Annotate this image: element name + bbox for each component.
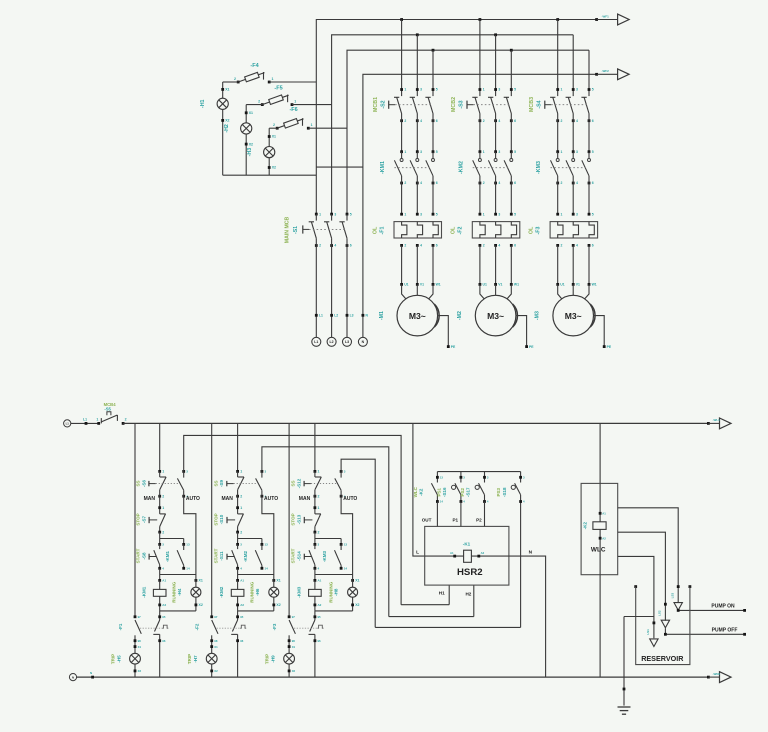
svg-text:1: 1: [404, 150, 406, 154]
svg-text:P2: P2: [476, 518, 482, 523]
svg-text:U1: U1: [483, 283, 487, 287]
svg-text:X2: X2: [138, 669, 142, 673]
ground: [618, 707, 631, 714]
svg-text:X1: X1: [272, 135, 276, 139]
svg-text:4: 4: [498, 244, 500, 248]
svg-text:-F1: -F1: [379, 226, 385, 234]
svg-text:95: 95: [240, 615, 244, 619]
svg-text:-K2: -K2: [419, 488, 424, 496]
svg-text:L3: L3: [350, 314, 354, 318]
svg-text:PE: PE: [607, 345, 612, 349]
svg-text:-F2: -F2: [195, 623, 200, 630]
svg-text:6: 6: [592, 181, 594, 185]
svg-text:-F5: -F5: [274, 86, 282, 92]
svg-text:-WN1: -WN1: [713, 672, 721, 676]
wire WLC to shallow probe: [618, 508, 679, 603]
svg-text:OL: OL: [451, 226, 457, 234]
svg-text:96: 96: [162, 639, 166, 643]
svg-text:OL: OL: [529, 226, 535, 234]
svg-text:-S12: -S12: [297, 478, 302, 488]
terminal L3: [343, 314, 354, 347]
auto feed staircase wire column 1: [184, 435, 401, 604]
wire STOP to start rung column 2: [238, 532, 262, 544]
svg-text:2: 2: [483, 244, 485, 248]
svg-text:95: 95: [162, 615, 166, 619]
svg-text:TRIP: TRIP: [187, 654, 192, 664]
svg-text:MAN: MAN: [222, 496, 234, 502]
svg-text:AUTO: AUTO: [343, 496, 357, 502]
svg-text:1: 1: [319, 212, 321, 216]
svg-text:MAN: MAN: [144, 496, 156, 502]
svg-text:13: 13: [344, 543, 348, 547]
svg-text:1: 1: [561, 88, 563, 92]
svg-text:LS2: LS2: [658, 610, 662, 616]
running lamp -H8: [328, 575, 359, 611]
svg-text:MAN: MAN: [299, 496, 311, 502]
terminal L1: [312, 314, 323, 347]
svg-text:1: 1: [240, 470, 242, 474]
svg-text:M3~: M3~: [487, 311, 504, 321]
svg-text:PE: PE: [529, 345, 534, 349]
svg-text:-F3: -F3: [272, 623, 277, 630]
svg-text:1: 1: [318, 506, 320, 510]
svg-text:-S10: -S10: [219, 514, 224, 524]
svg-text:WLC: WLC: [413, 486, 418, 497]
wire motor 3 PE: [535, 283, 612, 349]
relay box WLC: [581, 483, 618, 574]
svg-text:6: 6: [350, 244, 352, 248]
svg-text:H1: H1: [439, 591, 445, 596]
stop pushbutton STOP -S7: [135, 513, 165, 534]
svg-text:PE: PE: [451, 345, 456, 349]
wire STOP to start rung column 3: [315, 532, 341, 544]
svg-text:3: 3: [498, 212, 500, 216]
svg-text:V1: V1: [576, 283, 580, 287]
svg-text:-H4: -H4: [177, 588, 182, 596]
svg-text:MCB1: MCB1: [373, 97, 379, 112]
svg-text:6: 6: [592, 119, 594, 123]
svg-text:MCB3: MCB3: [529, 97, 535, 112]
svg-text:W1: W1: [436, 283, 441, 287]
auto feed staircase wire column 2: [262, 447, 389, 617]
svg-text:L: L: [416, 550, 419, 556]
auxiliary contact -KM3 (seal-in): [322, 543, 347, 571]
svg-text:A2: A2: [481, 551, 485, 555]
svg-text:X1: X1: [355, 579, 359, 583]
svg-text:13: 13: [265, 543, 269, 547]
svg-text:L1: L1: [319, 314, 323, 318]
svg-text:-S4: -S4: [537, 100, 543, 108]
svg-text:-F4: -F4: [250, 63, 259, 69]
svg-text:-S16: -S16: [442, 487, 447, 497]
coil -K1 inside HSR2: [425, 542, 509, 563]
svg-text:X2: X2: [249, 142, 253, 146]
wire PUMP ON: [677, 603, 746, 611]
svg-text:6: 6: [514, 244, 516, 248]
svg-text:3: 3: [420, 212, 422, 216]
svg-text:-H3: -H3: [247, 148, 253, 157]
svg-text:-M2: -M2: [457, 311, 463, 320]
contact WLC -K2: [413, 472, 443, 504]
svg-text:-F1: -F1: [118, 623, 123, 630]
wire OUT P1 P2 into HSR2: [437, 502, 484, 527]
svg-text:95: 95: [318, 615, 322, 619]
wire motor 1 PE: [379, 283, 456, 349]
junction dots on buses: [400, 18, 559, 52]
svg-text:SS: SS: [135, 480, 140, 486]
svg-text:M3~: M3~: [409, 311, 426, 321]
circuit breaker MAIN MCB -S1: [285, 212, 352, 247]
svg-text:PUMP ON: PUMP ON: [711, 603, 735, 609]
svg-text:-S5: -S5: [104, 407, 111, 412]
svg-text:P1: P1: [452, 518, 458, 523]
svg-text:2: 2: [234, 77, 236, 81]
terminal N control: [69, 674, 76, 681]
wire coil lamp join column 2: [238, 610, 274, 612]
wire WLC to deep probe: [618, 556, 654, 638]
selector switch SS -S12 (MAN/AUTO): [291, 470, 358, 503]
wire MAN output to STOP column 2: [236, 496, 242, 514]
svg-text:4: 4: [420, 181, 422, 185]
contact PS2 -S17: [460, 472, 489, 504]
svg-text:STOP: STOP: [135, 513, 140, 525]
lamp H2: [224, 105, 253, 176]
wire N control rail: [77, 671, 709, 678]
svg-text:98: 98: [138, 639, 142, 643]
svg-text:MCB2: MCB2: [451, 97, 457, 112]
lamp H3: [247, 128, 276, 175]
svg-text:4: 4: [420, 244, 422, 248]
svg-text:START: START: [291, 548, 296, 563]
svg-text:X2: X2: [292, 669, 296, 673]
svg-text:2: 2: [162, 530, 164, 534]
svg-text:-S7: -S7: [141, 516, 146, 524]
selector switch SS -S6 (MAN/AUTO): [135, 470, 200, 503]
svg-text:-H1: -H1: [200, 99, 206, 108]
svg-text:-S13: -S13: [297, 514, 302, 524]
relay box HSR2: [416, 518, 532, 597]
svg-text:-H8: -H8: [334, 588, 339, 596]
trip lamp TRIP -H5: [111, 635, 142, 677]
svg-text:6: 6: [514, 119, 516, 123]
svg-text:A1: A1: [318, 579, 322, 583]
svg-text:1: 1: [483, 212, 485, 216]
contact PS3 -S18: [496, 472, 525, 504]
coil -KM3: [297, 579, 322, 611]
svg-text:TRIP: TRIP: [265, 654, 270, 664]
svg-text:-H5: -H5: [116, 655, 121, 663]
svg-text:1: 1: [561, 212, 563, 216]
running lamp -H6: [250, 575, 281, 611]
svg-text:U1: U1: [560, 283, 564, 287]
svg-text:AUTO: AUTO: [186, 496, 200, 502]
svg-text:6: 6: [436, 181, 438, 185]
svg-text:-F2: -F2: [458, 226, 464, 234]
svg-text:X1: X1: [292, 645, 296, 649]
overload contacts -F1: [118, 611, 168, 677]
svg-text:-H6: -H6: [255, 588, 260, 596]
svg-text:97: 97: [138, 615, 142, 619]
svg-text:1: 1: [96, 417, 98, 421]
svg-text:6: 6: [436, 244, 438, 248]
wire lamp rail jog to N feeder: [316, 166, 363, 168]
reservoir tank: [634, 585, 691, 664]
svg-text:-S3: -S3: [459, 100, 465, 108]
svg-text:L2: L2: [334, 314, 338, 318]
svg-text:X1: X1: [225, 88, 229, 92]
svg-text:LS1: LS1: [646, 629, 650, 635]
start pushbutton START -S14: [291, 543, 320, 571]
terminal L1 control: [64, 420, 71, 427]
auto bypass wire column 3: [341, 496, 353, 574]
svg-text:-S1: -S1: [293, 226, 299, 234]
contact PS1 -S16: [437, 472, 466, 504]
wire S18 feed to column 3 auto: [375, 502, 520, 628]
svg-text:-S6: -S6: [141, 480, 146, 488]
svg-text:PS1: PS1: [437, 488, 442, 497]
svg-text:6: 6: [436, 119, 438, 123]
svg-text:4: 4: [420, 119, 422, 123]
wire L1 to MCB4: [71, 417, 99, 424]
wire L2 bus: [332, 35, 574, 214]
overload relay OL -F3: [529, 212, 598, 247]
wire tank common to ground: [623, 617, 654, 706]
wire motor 2 PE: [457, 283, 534, 349]
circuit breaker MCB4 -S5: [96, 402, 126, 425]
wire HSR2 contact bus: [437, 471, 520, 473]
svg-text:1: 1: [483, 88, 485, 92]
wire main drop column 1: [159, 423, 161, 471]
svg-text:TRIP: TRIP: [111, 654, 116, 664]
svg-text:4: 4: [576, 119, 578, 123]
svg-text:-S18: -S18: [502, 487, 507, 497]
svg-text:RUNNING: RUNNING: [250, 581, 255, 602]
svg-text:WLC: WLC: [591, 546, 606, 553]
stop pushbutton STOP -S13: [291, 513, 321, 534]
svg-text:4: 4: [498, 119, 500, 123]
wire STOP to start rung column 1: [160, 532, 184, 544]
svg-text:5: 5: [514, 150, 516, 154]
svg-text:5: 5: [514, 212, 516, 216]
svg-text:L1: L1: [314, 340, 318, 344]
svg-text:2: 2: [483, 119, 485, 123]
svg-text:5: 5: [350, 212, 352, 216]
svg-text:-WF2: -WF2: [602, 69, 610, 73]
svg-text:SS: SS: [213, 480, 218, 486]
svg-text:14: 14: [265, 567, 269, 571]
running lamp -H4: [172, 575, 203, 611]
svg-text:5: 5: [514, 88, 516, 92]
terminal N: [358, 314, 368, 347]
svg-text:PS2: PS2: [460, 488, 465, 497]
probe electrode shallow (pump on): [670, 585, 682, 610]
trip lamp TRIP -H9: [265, 635, 296, 677]
svg-text:OUT: OUT: [422, 518, 432, 523]
svg-text:1: 1: [240, 506, 242, 510]
svg-text:-K2: -K2: [583, 521, 588, 529]
svg-text:STOP: STOP: [213, 513, 218, 525]
svg-text:13: 13: [440, 476, 444, 480]
svg-text:X2: X2: [199, 603, 203, 607]
svg-text:-KM3: -KM3: [297, 586, 302, 597]
svg-text:-KM1: -KM1: [380, 161, 386, 174]
svg-text:-H9: -H9: [270, 655, 275, 663]
wire branch 1 phase drops: [402, 20, 433, 97]
svg-text:-KM1: -KM1: [165, 551, 170, 562]
svg-text:-S2: -S2: [380, 100, 386, 108]
svg-text:A2: A2: [602, 536, 606, 540]
svg-text:X1: X1: [276, 579, 280, 583]
wire trip feeder column 3: [288, 423, 290, 616]
svg-text:X1: X1: [249, 111, 253, 115]
svg-text:14: 14: [344, 567, 348, 571]
svg-text:1: 1: [561, 150, 563, 154]
svg-text:AUTO: AUTO: [264, 496, 278, 502]
svg-text:-KM2: -KM2: [219, 586, 224, 597]
start pushbutton START -S8: [135, 543, 164, 571]
svg-text:2: 2: [404, 181, 406, 185]
svg-text:5: 5: [436, 150, 438, 154]
svg-text:2: 2: [404, 119, 406, 123]
svg-text:3: 3: [498, 88, 500, 92]
svg-text:A1: A1: [450, 551, 454, 555]
wire main drop column 3: [314, 423, 316, 471]
svg-text:2: 2: [483, 181, 485, 185]
svg-text:A1: A1: [602, 512, 606, 516]
wire main drop column 2: [237, 423, 239, 471]
svg-text:-WL1: -WL1: [713, 418, 721, 422]
svg-text:2: 2: [561, 181, 563, 185]
svg-text:2: 2: [258, 100, 260, 104]
svg-text:98: 98: [292, 639, 296, 643]
svg-text:X2: X2: [214, 669, 218, 673]
svg-text:X1: X1: [138, 645, 142, 649]
wire L3 bus: [347, 50, 589, 214]
svg-text:A2: A2: [162, 603, 166, 607]
coil -K2 inside WLC: [583, 483, 607, 574]
wire start rung join column 1: [160, 568, 196, 580]
svg-text:RESERVOIR: RESERVOIR: [641, 654, 684, 663]
wire start rung join column 2: [238, 568, 274, 580]
wire overload to motor 1: [402, 245, 433, 284]
svg-text:1: 1: [404, 88, 406, 92]
svg-text:6: 6: [514, 181, 516, 185]
svg-text:-S17: -S17: [466, 487, 471, 497]
svg-text:N: N: [529, 550, 533, 556]
svg-text:2: 2: [240, 494, 242, 498]
svg-text:2: 2: [318, 494, 320, 498]
svg-text:-WF1: -WF1: [602, 14, 610, 18]
svg-text:3: 3: [576, 150, 578, 154]
svg-text:2: 2: [273, 123, 275, 127]
svg-text:1: 1: [294, 100, 296, 104]
wire rail to HSR2 L input: [413, 423, 425, 556]
svg-text:X2: X2: [225, 119, 229, 123]
wire N bus: [363, 74, 597, 337]
svg-text:6: 6: [592, 244, 594, 248]
svg-text:1: 1: [318, 470, 320, 474]
wire overload to motor 2: [480, 245, 511, 284]
contactor -KM2: [458, 150, 516, 214]
svg-text:5: 5: [592, 88, 594, 92]
svg-text:L1: L1: [83, 417, 87, 421]
svg-text:MAIN MCB: MAIN MCB: [285, 216, 291, 243]
wire rail to WLC: [599, 423, 601, 483]
wire PUMP OFF: [664, 627, 746, 635]
svg-text:3: 3: [498, 150, 500, 154]
auxiliary contact -KM2 (seal-in): [243, 543, 268, 571]
overload relay OL -F1: [372, 212, 441, 247]
svg-text:3: 3: [576, 88, 578, 92]
svg-text:N: N: [72, 675, 74, 679]
coil -KM2: [219, 579, 244, 611]
coil -KM1: [141, 579, 166, 611]
wire WLC return to N rail: [599, 575, 601, 677]
trip lamp TRIP -H7: [187, 635, 218, 677]
svg-text:5: 5: [436, 212, 438, 216]
svg-text:-KM2: -KM2: [243, 551, 248, 562]
wire MAN output to STOP column 1: [158, 496, 164, 514]
svg-text:14: 14: [440, 500, 444, 504]
lamp H1: [200, 82, 230, 175]
wire overload to motor 3: [558, 245, 589, 284]
svg-text:1: 1: [162, 470, 164, 474]
svg-text:L3: L3: [345, 340, 349, 344]
svg-text:X2: X2: [276, 603, 280, 607]
wire coil lamp join column 3: [315, 610, 353, 612]
overload contacts -F2: [195, 611, 247, 677]
svg-text:L1: L1: [66, 422, 70, 426]
wire fuse F4 output to L1 feeder: [223, 81, 317, 83]
wire fuse F6 output to L3 feeder: [269, 127, 347, 129]
circuit breaker MCB1 -S2: [373, 88, 438, 152]
svg-text:5: 5: [592, 212, 594, 216]
svg-text:2: 2: [561, 119, 563, 123]
svg-text:2: 2: [319, 244, 321, 248]
svg-text:A1: A1: [240, 579, 244, 583]
svg-text:13: 13: [186, 543, 190, 547]
svg-text:X1: X1: [214, 645, 218, 649]
wire WLC to middle probe: [618, 532, 666, 621]
fuse F5: [258, 86, 296, 106]
svg-text:97: 97: [292, 615, 296, 619]
node N rail arrow right: [707, 672, 731, 683]
svg-text:START: START: [213, 548, 218, 563]
wire trip feeder column 1: [134, 423, 136, 616]
svg-text:2: 2: [561, 244, 563, 248]
node rail arrow right: [707, 418, 731, 429]
wire lamp common rail: [223, 174, 317, 176]
svg-text:-S8: -S8: [141, 552, 146, 560]
svg-text:1: 1: [483, 150, 485, 154]
svg-text:X2: X2: [355, 603, 359, 607]
wire branch 2 phase drops: [480, 20, 511, 97]
svg-text:OL: OL: [372, 226, 378, 234]
svg-text:PS3: PS3: [496, 488, 501, 497]
svg-text:14: 14: [186, 567, 190, 571]
svg-text:A2: A2: [318, 603, 322, 607]
circuit breaker MCB3 -S4: [529, 88, 594, 152]
wire trip feeder column 2: [211, 423, 213, 616]
svg-text:5: 5: [436, 88, 438, 92]
svg-text:V1: V1: [420, 283, 424, 287]
svg-text:L2: L2: [330, 340, 334, 344]
svg-text:W1: W1: [592, 283, 597, 287]
node -WF2 bus arrow N: [595, 69, 629, 80]
svg-text:4: 4: [576, 244, 578, 248]
fuse F6: [273, 107, 313, 130]
svg-text:-KM1: -KM1: [141, 586, 146, 597]
